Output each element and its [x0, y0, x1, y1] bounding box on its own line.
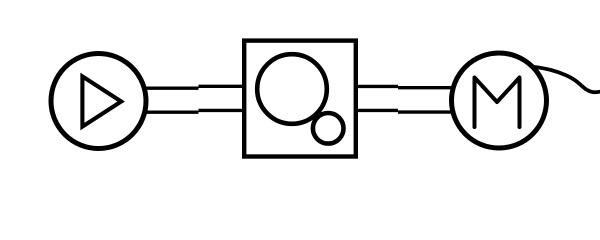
pump P1: circle [51, 54, 146, 149]
wire: double-line link pump to box, pump-side top segment [144, 86, 199, 89]
pump P1: triangle rotor [82, 76, 121, 126]
vacuum pump U1: square body [244, 41, 356, 157]
wire: double-line link box to motor, box-side bottom segment [354, 109, 398, 112]
wire: double-line link box to motor, motor-side top segment [398, 86, 454, 89]
wire: double-line link pump to box, box-side bottom segment [199, 109, 247, 112]
wire: double-line link pump to box, pump-side bottom segment [144, 110, 199, 113]
motor M1: letter M [475, 78, 520, 128]
vacuum pump U1: large rotor circle [257, 54, 327, 124]
wire: double-line link pump to box, box-side top segment [199, 85, 247, 88]
vacuum pump U1: small rotor circle [313, 113, 344, 144]
wire: motor cable curving to right edge [535, 67, 600, 92]
wire: double-line link box to motor, box-side top segment [354, 85, 398, 88]
motor M1: circle [452, 53, 547, 148]
wire: double-line link box to motor, motor-side bottom segment [398, 110, 454, 113]
